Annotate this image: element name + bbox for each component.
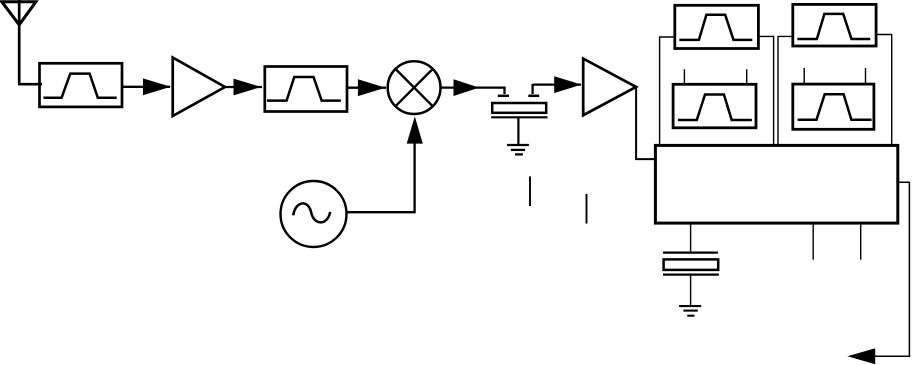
wire FL2 to mixer: [347, 87, 386, 89]
crystal Y1 body: [664, 259, 719, 270]
band-pass filter FL2: [265, 67, 347, 112]
wire FL3 to A2: [533, 83, 581, 85]
arrowhead into A2: [554, 76, 581, 93]
wire FL1 to A1: [122, 86, 170, 88]
ceramic filter FL3 right electrode: [528, 84, 539, 96]
wire IC to crystal Y1: [690, 224, 692, 252]
antenna ANT1: [2, 0, 36, 84]
arrowhead into FL2: [234, 79, 262, 96]
wire A1 to FL2: [225, 86, 262, 88]
arrowhead into mixer: [358, 79, 386, 96]
ground of FL3: [507, 145, 529, 154]
wire mixer to ceramic filter FL3: [441, 88, 505, 94]
ceramic filter FL3 left electrode: [498, 95, 509, 98]
filter bank 2 bottom filter FL7: [793, 84, 874, 129]
arrowhead LO into mixer: [407, 116, 423, 143]
filter bank 1 bottom filter FL5: [673, 84, 756, 128]
amplifier A2: [583, 59, 636, 116]
wire A2 to IC block: [636, 87, 656, 159]
FL7 pin 1: [803, 68, 805, 84]
wire Y1 to ground: [690, 275, 692, 306]
wire FL4 left to IC: [660, 37, 675, 144]
FL5 pin 2: [746, 69, 748, 84]
wire FL6 right to IC: [876, 35, 892, 145]
wire antenna to FL1: [18, 83, 42, 86]
ceramic filter FL3 bottom plate: [491, 116, 547, 118]
IC pin stub 1: [812, 224, 814, 260]
wire FL6 left to IC: [778, 36, 793, 144]
arrowhead on mixer output: [454, 79, 480, 96]
crystal Y1 top plate: [663, 252, 718, 254]
FL5 pin 1: [683, 69, 685, 84]
IC pin stub 2: [860, 224, 862, 260]
ceramic filter FL3 body: [492, 103, 546, 113]
amplifier A1: [173, 58, 225, 117]
FL7 pin 2: [865, 68, 867, 84]
filter bank 2 top filter FL6: [793, 4, 876, 46]
wire LO to mixer: [347, 142, 415, 212]
wire FL3 to ground: [517, 117, 519, 145]
wire IC output loop: [873, 182, 909, 356]
arrowhead into A1: [143, 78, 171, 95]
IC block U1: [655, 145, 897, 223]
filter bank 1 top filter FL4: [675, 5, 759, 48]
mixer M1: [388, 61, 441, 114]
ground of Y1: [679, 306, 701, 316]
local oscillator LO: [281, 181, 347, 247]
wire FL4 right to IC: [758, 36, 773, 144]
crystal Y1 bottom plate: [663, 274, 719, 276]
arrowhead output (pointing left): [847, 348, 875, 364]
node leader line 1: [529, 176, 531, 206]
node leader line 2: [586, 194, 588, 224]
band-pass filter FL1: [40, 63, 123, 107]
